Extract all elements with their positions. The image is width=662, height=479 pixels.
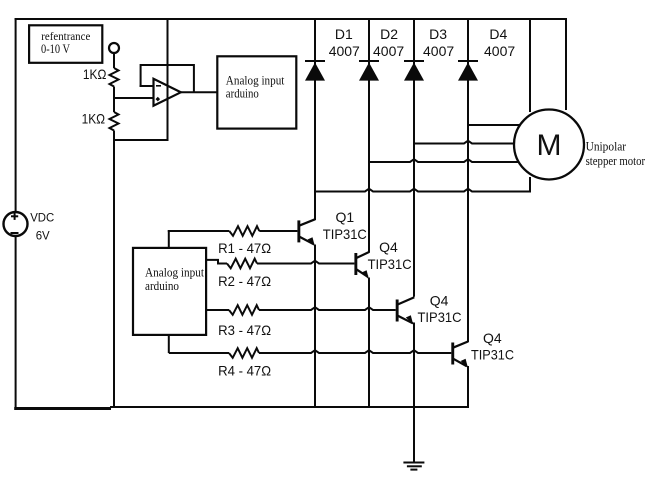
svg-text:M: M bbox=[537, 129, 562, 162]
svg-text:VDC: VDC bbox=[30, 210, 54, 224]
svg-text:Q4: Q4 bbox=[430, 293, 449, 309]
svg-text:arduino: arduino bbox=[145, 278, 179, 293]
svg-text:R3 - 47Ω: R3 - 47Ω bbox=[218, 322, 271, 338]
svg-text:4007: 4007 bbox=[423, 43, 454, 59]
svg-text:R2 - 47Ω: R2 - 47Ω bbox=[218, 273, 271, 289]
svg-text:Q1: Q1 bbox=[336, 209, 355, 225]
svg-text:4007: 4007 bbox=[373, 43, 404, 59]
svg-text:D1: D1 bbox=[335, 26, 353, 42]
svg-text:4007: 4007 bbox=[484, 43, 515, 59]
svg-text:TIP31C: TIP31C bbox=[471, 347, 514, 363]
svg-text:D2: D2 bbox=[380, 26, 398, 42]
svg-text:4007: 4007 bbox=[329, 43, 360, 59]
svg-text:1KΩ: 1KΩ bbox=[83, 66, 107, 82]
svg-text:Q4: Q4 bbox=[483, 330, 502, 346]
svg-text:R1 - 47Ω: R1 - 47Ω bbox=[218, 240, 271, 256]
svg-text:1KΩ: 1KΩ bbox=[82, 111, 106, 127]
svg-text:D3: D3 bbox=[429, 26, 447, 42]
svg-text:stepper motor: stepper motor bbox=[586, 153, 646, 168]
svg-text:TIP31C: TIP31C bbox=[323, 226, 367, 242]
svg-text:6V: 6V bbox=[36, 228, 50, 242]
svg-text:D4: D4 bbox=[489, 26, 507, 42]
svg-text:arduino: arduino bbox=[226, 86, 259, 101]
svg-text:Q4: Q4 bbox=[379, 239, 398, 255]
svg-text:TIP31C: TIP31C bbox=[418, 309, 462, 325]
svg-text:0-10 V: 0-10 V bbox=[41, 41, 70, 56]
svg-text:R4 - 47Ω: R4 - 47Ω bbox=[218, 363, 271, 379]
svg-text:Unipolar: Unipolar bbox=[586, 139, 627, 154]
svg-text:TIP31C: TIP31C bbox=[368, 256, 412, 272]
